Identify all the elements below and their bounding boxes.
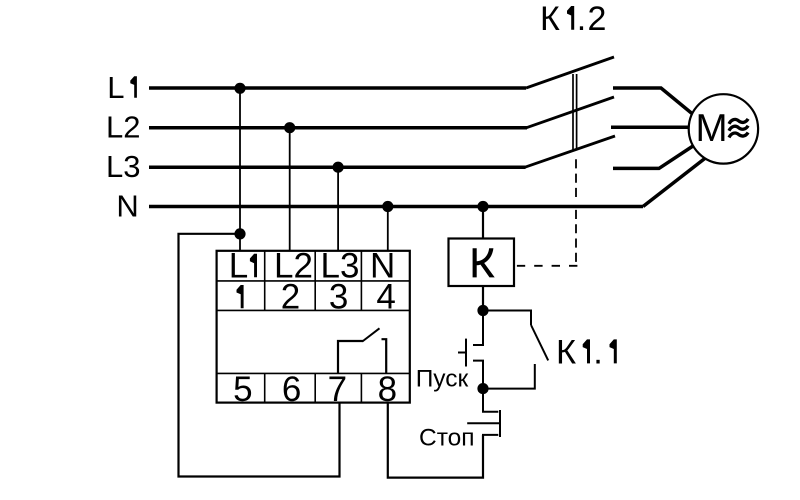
wire coil K to start button (482, 286, 484, 311)
terminal pin 1 (237, 285, 244, 308)
wire motor feed neutral (643, 156, 708, 207)
relay internal contact (338, 328, 386, 373)
contactor K1.2 label (540, 0, 606, 38)
svg-text:L2: L2 (106, 109, 140, 144)
svg-text:M: M (696, 107, 728, 150)
dashed link from K1.2 to coil K (517, 159, 578, 265)
svg-text:Пуск: Пуск (416, 365, 469, 392)
svg-text:L3: L3 (106, 149, 140, 184)
node L2 label (106, 109, 140, 144)
contact K1.1 branch (483, 311, 548, 389)
terminal label L2 (274, 246, 313, 285)
svg-text:5: 5 (233, 370, 252, 409)
junction dot L2 tap (284, 122, 295, 133)
svg-text:3: 3 (329, 278, 348, 317)
wire drop N to terminal 4 (387, 207, 389, 251)
wire drop L3 to terminal 3 (337, 167, 339, 250)
svg-text:4: 4 (376, 278, 395, 317)
wire N bus (149, 205, 643, 209)
wire motor feed phase 1 (613, 88, 695, 116)
coil K box (449, 239, 515, 287)
terminal pin 3 (329, 278, 348, 317)
contact K1.1 label (556, 334, 617, 372)
svg-text:2: 2 (281, 278, 300, 317)
terminal pin 5 (233, 370, 252, 409)
contactor K1.2 mechanical link (573, 74, 577, 150)
junction dot L1 tap (234, 83, 245, 94)
node L3 label (106, 149, 140, 184)
label Pusk (416, 365, 469, 392)
contactor K1.2 pole 2 blade (527, 97, 615, 128)
junction dot left loop tap (234, 228, 245, 239)
terminal strip bottom (217, 373, 410, 403)
contactor K1.2 pole 3 blade (525, 136, 615, 167)
junction dot N coil tap (477, 201, 488, 212)
wire motor feed phase 2 (611, 125, 695, 129)
relay device box (217, 251, 410, 403)
svg-text:7: 7 (328, 370, 347, 409)
wire drop L2 to terminal 2 (289, 128, 291, 251)
wire left loop to terminal 7 (179, 234, 340, 477)
junction dot start top (477, 305, 488, 316)
wire L2 bus (149, 126, 527, 130)
svg-text:.: . (593, 334, 603, 372)
junction dot start bottom (477, 383, 488, 394)
svg-text:.: . (577, 0, 586, 38)
wire drop L1 to terminal 1 (239, 88, 241, 251)
terminal label L3 (321, 246, 360, 285)
terminal pin 6 (282, 370, 301, 409)
junction dot N tap (382, 201, 393, 212)
node N label (116, 188, 138, 223)
terminal pin 4 (376, 278, 395, 317)
svg-text:К: К (540, 0, 560, 38)
svg-text:К: К (556, 334, 576, 372)
label Stop (419, 425, 475, 452)
svg-text:Стоп: Стоп (419, 425, 475, 452)
svg-text:L: L (229, 246, 248, 285)
node L1 label (107, 70, 137, 105)
svg-text:N: N (116, 188, 138, 223)
wire L3 bus (149, 165, 526, 169)
terminal strip top (217, 250, 410, 310)
pushbutton Stop (NC) (467, 389, 500, 437)
terminal label N (370, 246, 395, 285)
contactor K1.2 pole 1 blade (526, 57, 614, 88)
wire L1 bus (149, 86, 526, 90)
terminal pin 7 (328, 370, 347, 409)
wire terminal 8 to stop button (388, 403, 483, 478)
terminal label L1 (229, 246, 257, 285)
svg-text:L: L (107, 70, 124, 105)
pushbutton Pusk (start, NO) (458, 311, 483, 389)
terminal pin 2 (281, 278, 300, 317)
wire N tap to coil K (482, 207, 484, 240)
junction dot L3 tap (333, 162, 344, 173)
svg-text:2: 2 (588, 0, 607, 38)
svg-text:6: 6 (282, 370, 301, 409)
terminal pin 8 (378, 370, 397, 409)
motor M (689, 94, 758, 163)
wire motor feed phase 3 (613, 144, 696, 168)
